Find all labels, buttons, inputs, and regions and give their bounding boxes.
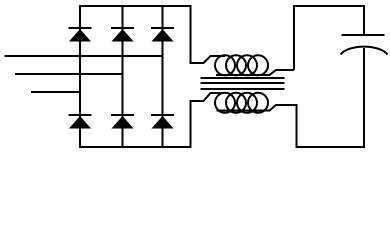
diode D1 (top, leg 1) (69, 28, 92, 42)
wire: secondary bottom drop to output (296, 104, 298, 148)
wire: bottom bus riser to transformer primary (190, 101, 192, 148)
wire: AC input phase line 1 (5, 55, 163, 57)
wire: capacitor bottom lead (363, 48, 365, 148)
three-phase bridge rectifier with smoothing transformer/inductor and capacitor (0, 0, 390, 151)
wire: capacitor top lead (363, 6, 365, 36)
diode D5 (bottom, leg 2) (111, 115, 134, 129)
wire: bridge leg 3 vertical (162, 5, 164, 148)
wire: output top rail (293, 5, 365, 7)
wire: bottom DC bus (79, 146, 192, 148)
inductor L2 (transformer bottom winding) (190, 93, 297, 113)
transformer core (3 lines) (201, 78, 285, 89)
diode D3 (top, leg 3) (151, 28, 174, 42)
diode D2 (top, leg 2) (111, 28, 134, 42)
diode D4 (bottom, leg 1) (69, 115, 92, 129)
wire: AC input phase line 2 (15, 73, 123, 75)
wire: secondary top riser to output (293, 5, 295, 70)
wire: top DC bus (79, 5, 192, 7)
wire: AC input phase line 3 (31, 91, 80, 93)
wire: bridge leg 1 vertical (79, 5, 81, 148)
capacitor C1 top plate (342, 34, 385, 36)
diode D6 (bottom, leg 3) (151, 115, 174, 129)
inductor L1 (transformer top winding) (190, 55, 295, 75)
wire: bridge leg 2 vertical (122, 5, 124, 148)
capacitor C1 bottom plate (curved) (341, 47, 388, 55)
wire: top bus drop to transformer primary (190, 6, 192, 63)
wire: output bottom rail (297, 146, 366, 148)
